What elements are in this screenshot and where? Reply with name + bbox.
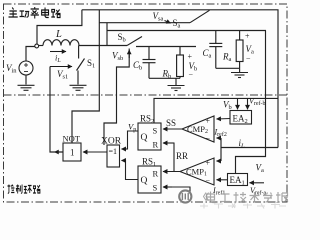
svg-text:−: −	[206, 134, 211, 143]
wire coil out	[79, 45, 127, 47]
wire rail iL top	[82, 10, 278, 148]
svg-text:S: S	[153, 183, 158, 193]
wire b-branch top	[136, 46, 196, 48]
技	[234, 192, 247, 203]
svg-text:S: S	[153, 126, 158, 136]
svg-text:L: L	[55, 29, 62, 40]
wire coil lead	[39, 45, 44, 47]
outer dash-dot frame	[4, 4, 288, 202]
wire iL bus	[221, 147, 278, 149]
svg-text:+: +	[188, 52, 193, 61]
arrow NOT output	[55, 151, 61, 153]
wire EA2 out to CMP2+	[217, 118, 231, 121]
flip-flop RS1	[138, 166, 161, 193]
wire RR riser to RS2.R	[165, 143, 174, 172]
watermark text 电工技术学报	[204, 193, 209, 201]
路	[33, 185, 40, 193]
capacitor Cb	[148, 47, 150, 60]
wire Vsb gate staircase	[104, 49, 129, 146]
amp EA2	[230, 111, 252, 125]
source Vin	[19, 61, 33, 75]
flip-flop RS2	[138, 123, 161, 150]
arrow Vs1 gate	[50, 66, 72, 68]
wire Sa tap vertical	[72, 10, 99, 143]
ground (Ra)	[231, 73, 248, 78]
wire Sa input	[99, 22, 190, 24]
svg-text:R: R	[153, 140, 159, 150]
svg-text:−: −	[246, 54, 251, 63]
resistor Rb	[179, 47, 181, 56]
svg-text:+: +	[206, 159, 211, 168]
comparator CMP2	[182, 116, 214, 142]
svg-text:NOT: NOT	[63, 134, 81, 144]
wire XOR to NOT	[83, 151, 107, 153]
svg-text:XOR: XOR	[101, 137, 122, 147]
svg-text:Q: Q	[141, 133, 148, 143]
ground (S1)	[70, 85, 87, 90]
switch Sb blade	[127, 37, 142, 46]
wire Vref-a into EA1	[250, 182, 265, 184]
主	[9, 8, 18, 18]
wire NOT to S1 gate	[50, 67, 63, 153]
svg-text:−: −	[206, 177, 211, 186]
svg-text:1: 1	[70, 148, 75, 158]
wire Vp: RS2.Q to XOR input1	[122, 131, 138, 149]
dash-dot divider between power and control sections	[4, 94, 288, 96]
svg-text:Q: Q	[141, 176, 148, 186]
电	[42, 8, 49, 18]
wire EA1 out to CMP1-	[217, 179, 228, 181]
wire iL to CMP2-	[217, 137, 222, 139]
capacitor Ca	[215, 31, 217, 44]
功	[20, 11, 30, 18]
环	[24, 186, 32, 194]
wire Vin top	[26, 47, 35, 62]
路	[51, 10, 60, 18]
switch S1	[78, 46, 80, 59]
工	[220, 194, 230, 202]
wire Vin bottom	[25, 75, 27, 85]
comparator CMP1	[180, 158, 214, 185]
inductor L	[43, 40, 79, 46]
wire a-branch top	[107, 30, 266, 32]
wire RS1.Q to XOR input2	[124, 161, 138, 180]
wire Va feedback	[236, 31, 266, 174]
amp EA1	[228, 174, 248, 186]
wire b-branch bottom	[149, 77, 180, 79]
svg-text:+: +	[206, 117, 211, 126]
switch Sa blade	[190, 10, 210, 22]
wire a-branch bottom	[216, 67, 240, 69]
wire RS1.S input from clock	[164, 187, 190, 193]
gate XOR U4	[107, 145, 120, 167]
wire node staircase up to rail	[37, 10, 82, 45]
arrow iL under coil	[50, 51, 66, 53]
watermark logo	[179, 190, 191, 202]
报	[276, 192, 288, 202]
node A (input node circle)	[35, 44, 39, 48]
wire iL to CMP1+	[217, 160, 222, 162]
ground (Rb)	[168, 86, 185, 91]
svg-text:−: −	[189, 71, 194, 80]
学	[263, 193, 273, 202]
wire Sb drop	[106, 23, 108, 46]
ground (Vin)	[18, 85, 35, 90]
术	[250, 192, 260, 203]
svg-text:CMP1: CMP1	[186, 167, 207, 178]
制	[16, 185, 22, 194]
wire Vb feedback line	[154, 98, 278, 123]
resistor Ra	[239, 31, 241, 41]
控	[7, 185, 14, 194]
电	[207, 192, 216, 203]
label 控制环路 (control loop)	[7, 185, 40, 194]
svg-text:RR: RR	[176, 151, 188, 161]
wire iL riser	[220, 138, 222, 161]
gate NOT U3	[63, 143, 81, 161]
arrow Vsb	[128, 50, 130, 58]
label 主功率电路 (main power circuit)	[9, 7, 61, 19]
wire CMP1 out to RS1.R	[163, 171, 180, 173]
svg-text:SS: SS	[166, 118, 176, 128]
arrow Vb into EA2	[237, 98, 239, 109]
率	[31, 7, 39, 19]
svg-text:+: +	[245, 32, 250, 41]
svg-text:R: R	[153, 169, 159, 179]
wire CMP2 out to RS2.S	[163, 128, 182, 130]
svg-text:=1: =1	[109, 147, 118, 156]
arrow Vref-b into EA2	[247, 98, 249, 109]
